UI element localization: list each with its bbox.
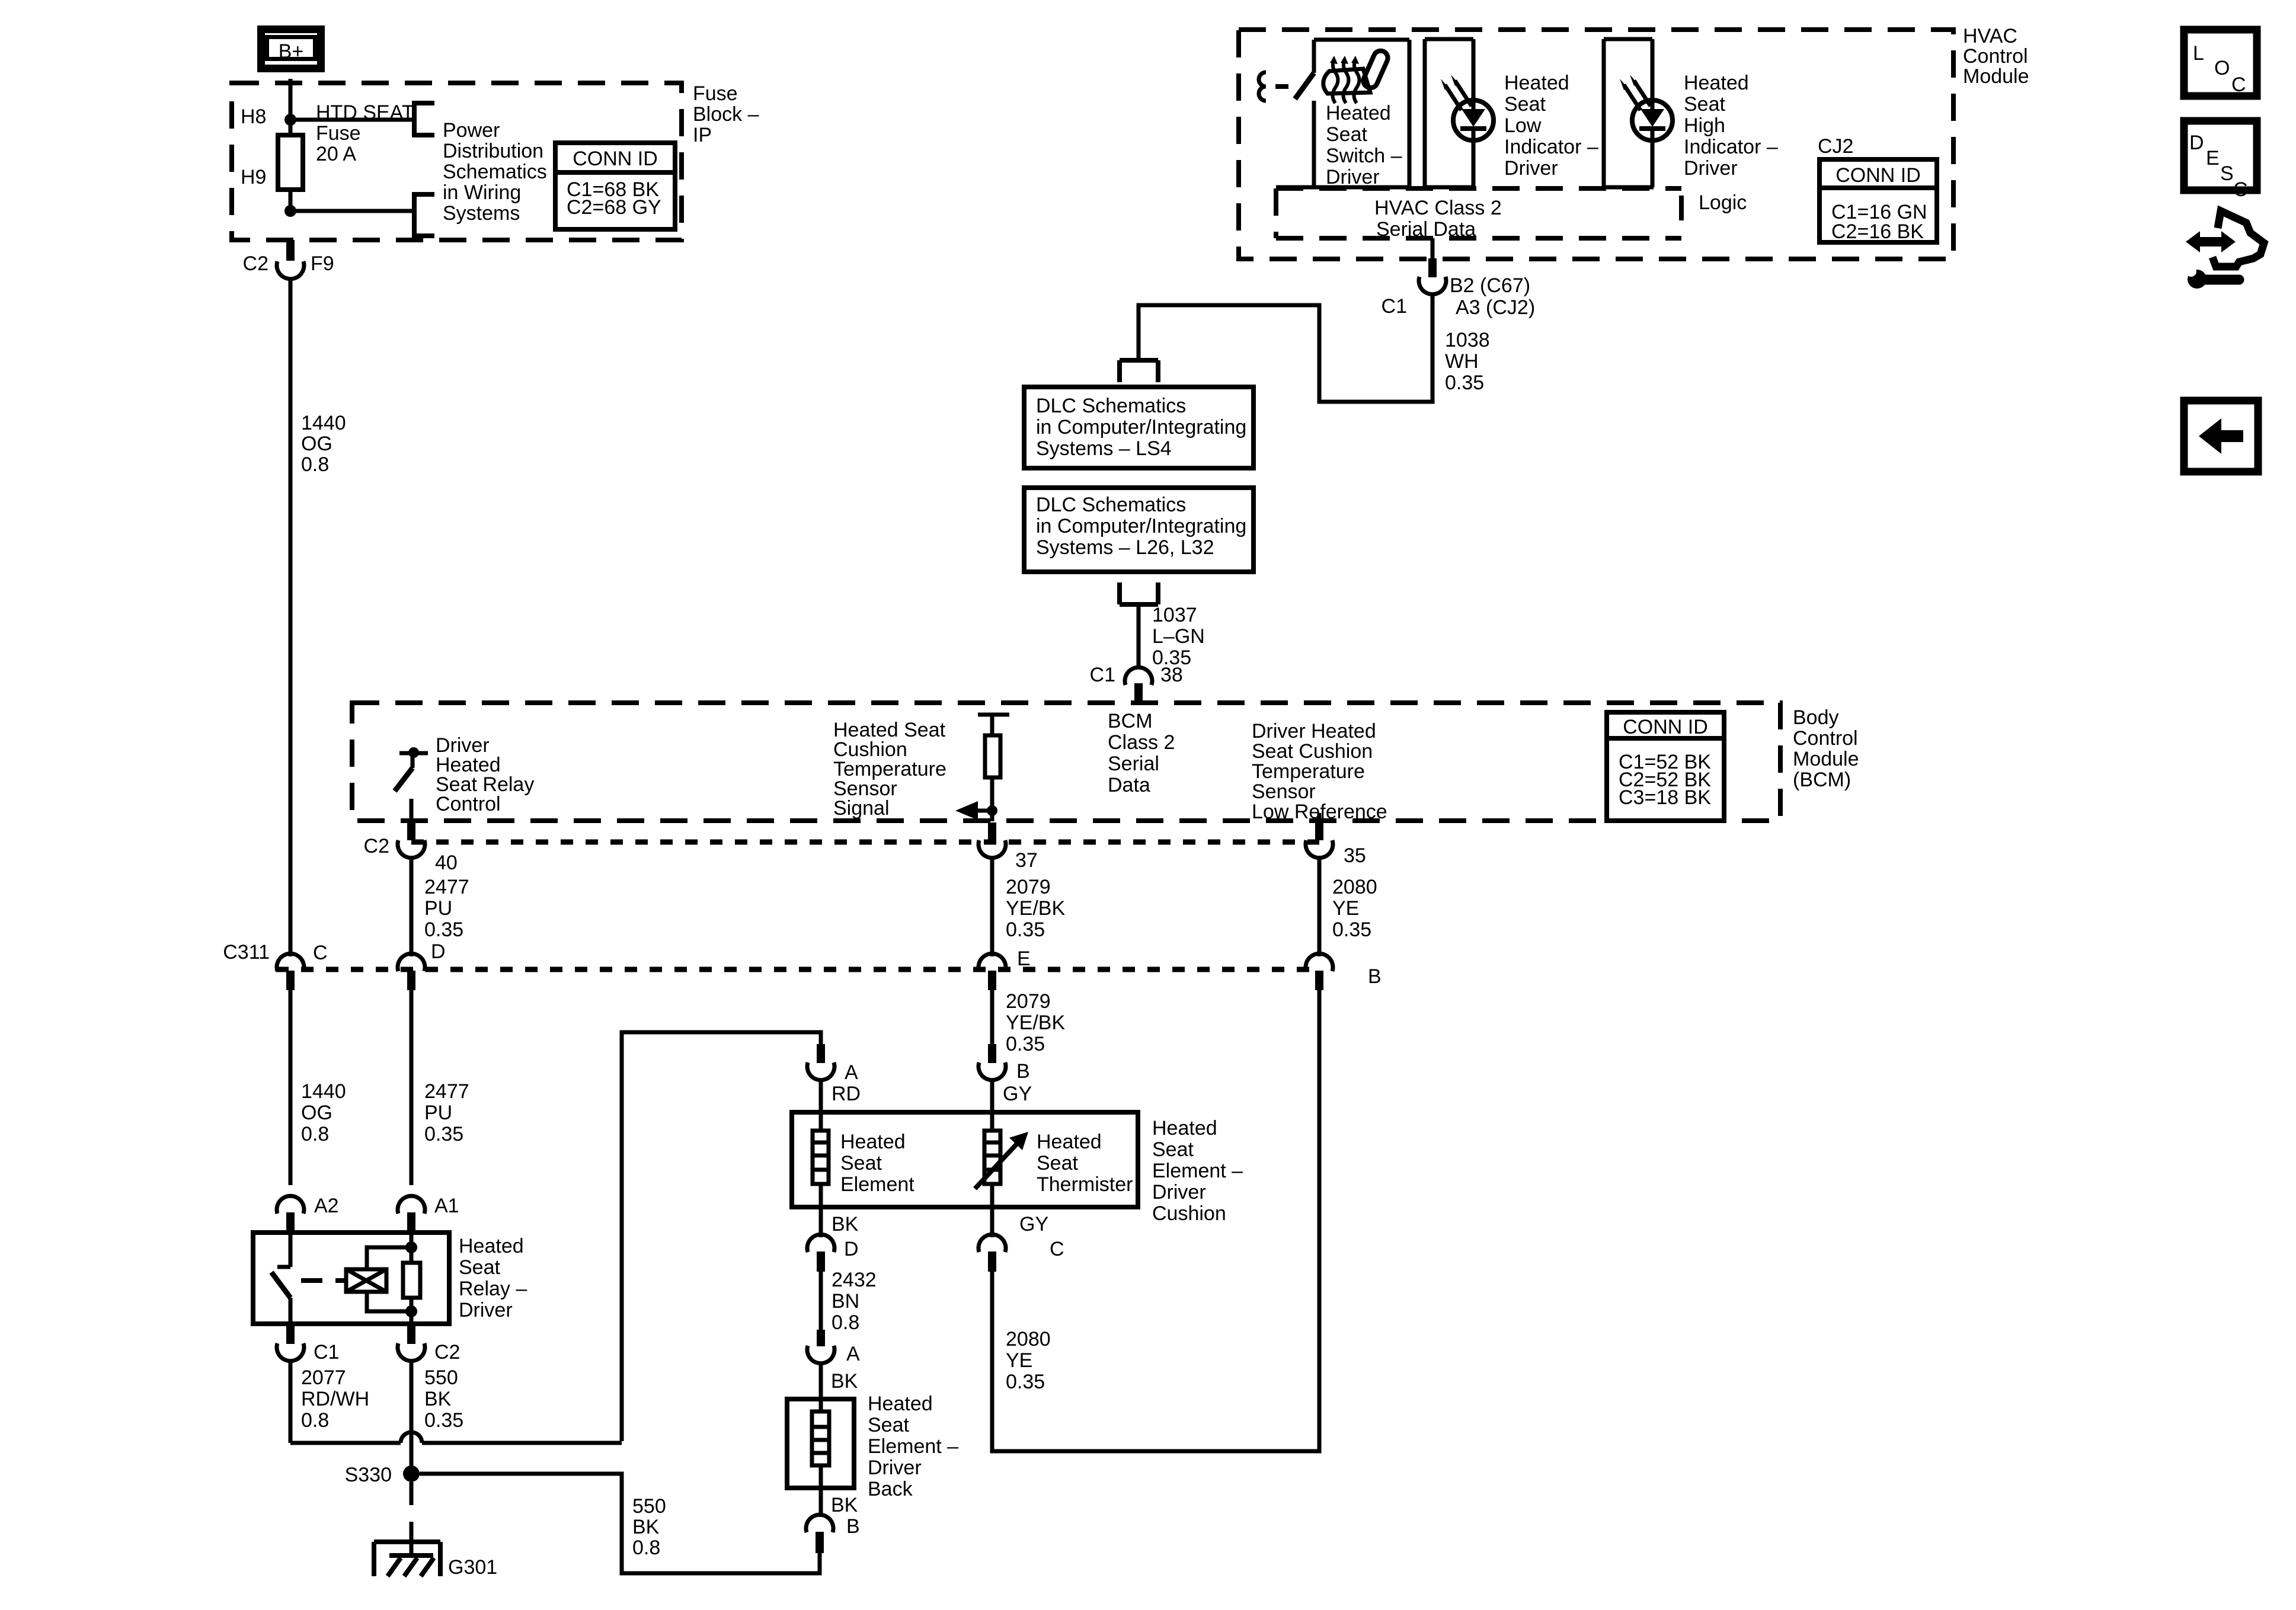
svg-text:Seat: Seat <box>1684 93 1725 116</box>
svg-text:Systems: Systems <box>443 202 520 225</box>
inner dashed box HVAC Class 2 Serial Data <box>1276 188 1681 238</box>
svg-text:Data: Data <box>1108 774 1150 796</box>
wire to off-page top <box>290 118 412 122</box>
wire fuse box to F9 <box>286 240 295 261</box>
svg-text:OG: OG <box>301 1102 332 1124</box>
svg-text:C2: C2 <box>243 252 268 275</box>
wires into element box <box>819 1079 823 1131</box>
svg-text:C2: C2 <box>364 835 389 857</box>
LED indicator low (diode) <box>1453 100 1494 140</box>
svg-text:A3 (CJ2): A3 (CJ2) <box>1456 296 1535 319</box>
svg-text:Heated: Heated <box>1684 72 1749 94</box>
svg-text:Element –: Element – <box>868 1435 958 1458</box>
connector C1 B2 (C67) / A3 (CJ2) <box>1419 277 1446 295</box>
svg-text:Serial Data: Serial Data <box>1376 218 1476 241</box>
svg-text:Driver: Driver <box>1504 157 1558 180</box>
svg-text:Module: Module <box>1793 748 1859 770</box>
svg-text:C: C <box>1050 1238 1064 1260</box>
svg-text:B: B <box>1016 1060 1030 1083</box>
power symbol B+ <box>261 30 321 69</box>
fuse HTD SEAT 20A <box>278 135 303 190</box>
Heated Seat Element - Driver Cushion box <box>792 1112 1138 1207</box>
HVAC Control Module dashed box <box>1239 30 1953 259</box>
svg-text:O: O <box>2214 57 2230 79</box>
svg-text:C2=68 GY: C2=68 GY <box>567 196 661 219</box>
svg-text:0.35: 0.35 <box>424 1123 463 1145</box>
svg-text:BK: BK <box>832 1213 859 1235</box>
svg-text:1440: 1440 <box>301 412 346 434</box>
connector row C311 dotted line <box>276 967 1319 972</box>
Body Control Module dashed box <box>352 703 1780 821</box>
svg-text:E: E <box>2206 147 2220 169</box>
off-page connector to Power Distribution (top) <box>414 101 434 137</box>
svg-text:Low: Low <box>1504 114 1542 137</box>
connector 37 (BCM) <box>988 822 996 840</box>
svg-text:Control: Control <box>1963 45 2028 68</box>
svg-text:Logic: Logic <box>1699 191 1747 214</box>
svg-text:WH: WH <box>1445 350 1479 373</box>
svg-text:2077: 2077 <box>301 1366 346 1389</box>
svg-text:YE: YE <box>1332 897 1359 920</box>
svg-text:YE/BK: YE/BK <box>1006 897 1065 920</box>
wire 2077 RD/WH <box>289 1360 293 1443</box>
svg-text:(BCM): (BCM) <box>1793 769 1851 791</box>
svg-text:A: A <box>845 1061 858 1084</box>
fuse block dashed box (Fuse Block - IP) <box>232 83 682 240</box>
svg-text:C: C <box>313 942 328 964</box>
svg-text:0.35: 0.35 <box>1006 1371 1045 1393</box>
svg-text:A2: A2 <box>314 1195 339 1217</box>
svg-text:in Wiring: in Wiring <box>443 181 521 204</box>
svg-text:Element: Element <box>840 1173 914 1196</box>
wire 2079 YE/BK (E to B conn) <box>990 990 994 1044</box>
CONN ID table (fuse block) <box>555 143 675 229</box>
svg-text:L–GN: L–GN <box>1152 625 1205 648</box>
svg-text:2477: 2477 <box>424 1080 469 1103</box>
svg-text:DLC Schematics: DLC Schematics <box>1036 494 1186 516</box>
svg-text:CJ2: CJ2 <box>1818 135 1853 158</box>
svg-text:0.35: 0.35 <box>1445 372 1484 394</box>
wire serial data out of HVAC <box>1431 238 1435 258</box>
svg-text:Indicator –: Indicator – <box>1504 136 1598 158</box>
svg-text:HTD SEAT: HTD SEAT <box>316 101 414 124</box>
wire 2080 YE (35 to B) <box>1318 857 1322 956</box>
svg-text:Schematics: Schematics <box>443 161 547 183</box>
svg-text:Heated: Heated <box>1504 72 1569 94</box>
svg-text:C: C <box>2233 178 2248 201</box>
svg-text:HVAC Class 2: HVAC Class 2 <box>1374 197 1502 219</box>
wire 2079 YE/BK (37 to E) <box>990 857 994 956</box>
svg-text:550: 550 <box>424 1366 458 1389</box>
svg-text:High: High <box>1684 114 1725 137</box>
svg-text:Driver: Driver <box>1326 166 1380 188</box>
wire 1440 OG (C to A2) <box>289 990 293 1185</box>
svg-text:C1: C1 <box>314 1341 339 1363</box>
heated seat switch box <box>1276 40 1409 187</box>
svg-text:D: D <box>2189 132 2204 154</box>
svg-text:CONN ID: CONN ID <box>1835 164 1921 187</box>
svg-text:YE/BK: YE/BK <box>1006 1012 1065 1034</box>
svg-text:Driver: Driver <box>459 1299 513 1321</box>
svg-text:550: 550 <box>632 1495 666 1518</box>
svg-text:C2=16 BK: C2=16 BK <box>1831 220 1924 243</box>
svg-text:0.35: 0.35 <box>1332 918 1371 941</box>
svg-text:0.35: 0.35 <box>1006 918 1045 941</box>
Heated Seat Relay - Driver box <box>253 1233 449 1324</box>
connector C1 (relay) <box>277 1326 304 1361</box>
DLC Schematics box 1 <box>1024 387 1253 468</box>
svg-text:S330: S330 <box>345 1464 392 1486</box>
svg-text:1038: 1038 <box>1445 329 1490 351</box>
heated seat thermister resistor <box>984 1131 1000 1184</box>
svg-text:BK: BK <box>632 1516 660 1538</box>
svg-text:37: 37 <box>1015 849 1038 872</box>
relay coil loop <box>367 1247 411 1311</box>
svg-text:Seat: Seat <box>1326 123 1367 146</box>
svg-text:Systems – LS4: Systems – LS4 <box>1036 437 1172 460</box>
svg-text:40: 40 <box>435 852 458 874</box>
svg-text:B+: B+ <box>279 40 304 63</box>
icon DESC box <box>2184 121 2257 201</box>
svg-text:Relay –: Relay – <box>459 1278 527 1300</box>
svg-text:Seat: Seat <box>1152 1138 1194 1161</box>
svg-text:Seat Cushion: Seat Cushion <box>1252 740 1373 763</box>
svg-text:C1: C1 <box>1090 664 1115 686</box>
svg-text:Fuse: Fuse <box>316 122 361 145</box>
wire out of back element box <box>819 1465 823 1488</box>
wire 550 BK (relay C2 to S330) <box>410 1360 414 1466</box>
node junction bottom of fuse <box>284 205 296 217</box>
BCM internal: signal arrow <box>955 801 992 820</box>
svg-text:Seat: Seat <box>840 1152 882 1174</box>
connector C2 (relay) <box>398 1326 425 1361</box>
svg-text:B: B <box>846 1515 860 1538</box>
svg-text:D: D <box>844 1238 859 1260</box>
svg-text:2079: 2079 <box>1006 876 1051 898</box>
switch wire to box bottom <box>1312 101 1316 187</box>
svg-text:Seat: Seat <box>1504 93 1546 116</box>
svg-text:Back: Back <box>868 1478 913 1500</box>
heated seat element resistor <box>813 1131 829 1184</box>
svg-text:Heated: Heated <box>840 1131 906 1153</box>
LED1 light arrows <box>1441 75 1472 110</box>
LED indicator high (diode) <box>1632 100 1673 140</box>
connector C2 F9 <box>277 261 304 279</box>
svg-text:2080: 2080 <box>1006 1328 1051 1350</box>
svg-text:35: 35 <box>1344 844 1366 867</box>
connector A2 (relay) <box>277 1196 304 1231</box>
svg-text:Heated: Heated <box>459 1235 524 1257</box>
svg-text:L: L <box>2193 42 2204 65</box>
svg-text:Element –: Element – <box>1152 1160 1243 1182</box>
wires out of element box <box>819 1184 823 1207</box>
svg-text:0.35: 0.35 <box>424 918 463 941</box>
connector A1 (relay) <box>398 1196 425 1231</box>
heated seat icon: cushion <box>1323 69 1370 94</box>
connector D (element) <box>807 1234 834 1272</box>
svg-text:BK: BK <box>424 1388 452 1410</box>
svg-text:C3=18 BK: C3=18 BK <box>1619 786 1711 809</box>
svg-text:0.35: 0.35 <box>424 1409 463 1432</box>
svg-text:B2 (C67): B2 (C67) <box>1450 274 1530 297</box>
svg-text:Module: Module <box>1963 65 2029 88</box>
svg-text:H8: H8 <box>241 105 266 128</box>
svg-text:Indicator –: Indicator – <box>1684 136 1778 158</box>
wire 2477 PU (C2 to D) <box>410 857 414 956</box>
wire fuse top feed <box>289 120 293 135</box>
off-page connector out of DLC box 2 <box>1120 582 1158 604</box>
svg-text:Distribution: Distribution <box>443 140 543 162</box>
svg-text:Class 2: Class 2 <box>1108 731 1175 754</box>
heated seat icon: backrest <box>1361 49 1390 90</box>
svg-text:0.8: 0.8 <box>632 1537 660 1559</box>
svg-text:Driver: Driver <box>1152 1181 1206 1204</box>
svg-text:38: 38 <box>1160 664 1183 686</box>
svg-text:GY: GY <box>1019 1213 1048 1235</box>
svg-text:HVAC: HVAC <box>1963 25 2017 47</box>
BCM internal: cushion temp sensor resistor <box>978 715 1009 821</box>
svg-text:Systems – L26, L32: Systems – L26, L32 <box>1036 536 1214 559</box>
svg-text:F9: F9 <box>311 252 334 275</box>
wire 1038 WH <box>1139 293 1432 402</box>
icon wrench <box>2186 266 2239 289</box>
svg-text:GY: GY <box>1003 1083 1032 1105</box>
off-page connector to Power Distribution (bottom) <box>414 192 434 238</box>
svg-text:Seat: Seat <box>459 1256 500 1279</box>
wire 1037 L-GN <box>1137 604 1141 668</box>
svg-text:IP: IP <box>693 124 712 146</box>
svg-text:B: B <box>1368 965 1382 988</box>
connector B (back element) <box>806 1515 833 1553</box>
svg-text:CONN ID: CONN ID <box>1623 716 1708 738</box>
relay linkage dashes <box>301 1278 322 1283</box>
wire S330 to ground <box>410 1482 414 1505</box>
svg-text:DLC Schematics: DLC Schematics <box>1036 395 1186 417</box>
svg-text:PU: PU <box>424 897 452 920</box>
svg-text:Driver: Driver <box>868 1457 922 1479</box>
svg-text:1037: 1037 <box>1152 604 1197 626</box>
wire to off-page bottom <box>290 209 412 213</box>
wire B+ to fuse block <box>289 79 293 120</box>
off-page connector into DLC box 1 <box>1120 360 1158 382</box>
CONN ID table (HVAC CJ2) <box>1819 159 1937 243</box>
wire S330 to back element <box>420 1474 820 1573</box>
svg-text:Power: Power <box>443 119 500 142</box>
svg-text:Driver Heated: Driver Heated <box>1252 720 1376 742</box>
svg-text:1440: 1440 <box>301 1080 346 1103</box>
svg-text:0.8: 0.8 <box>832 1311 859 1334</box>
LED loop 2 wire <box>1604 39 1654 187</box>
connector B (element GY) <box>988 1044 996 1063</box>
svg-text:Switch –: Switch – <box>1326 145 1402 167</box>
connector D (C311) <box>398 953 425 990</box>
svg-text:C1: C1 <box>1382 295 1407 318</box>
svg-text:0.35: 0.35 <box>1006 1033 1045 1055</box>
svg-text:Seat: Seat <box>868 1414 909 1436</box>
svg-text:0.8: 0.8 <box>301 1409 329 1432</box>
dash link <box>1275 84 1288 89</box>
LED loop 1 wire <box>1425 39 1475 187</box>
connector A (back element) <box>807 1330 834 1363</box>
connector C1 38 (BCM top) <box>1125 667 1152 685</box>
connector C (C311) <box>277 953 304 990</box>
svg-text:CONN ID: CONN ID <box>573 148 658 170</box>
ground G301 <box>374 1542 440 1576</box>
svg-text:RD: RD <box>832 1083 861 1105</box>
wire 1440 OG left rail <box>289 277 293 956</box>
BCM internal: low ref wire <box>1318 813 1322 821</box>
node junction top of fuse <box>284 114 296 126</box>
LED2 light arrows <box>1620 75 1651 110</box>
wire C1 run with hop <box>290 1441 622 1445</box>
icon LOC box <box>2184 30 2257 96</box>
svg-text:Heated: Heated <box>1152 1117 1217 1140</box>
connector 35 (BCM) <box>1315 822 1323 840</box>
Heated Seat Element - Driver Back box <box>787 1399 854 1488</box>
svg-text:D: D <box>431 940 446 963</box>
svg-text:2432: 2432 <box>832 1269 877 1291</box>
svg-text:20 A: 20 A <box>316 143 356 165</box>
wire 2477 PU (D to A1) <box>410 990 414 1185</box>
svg-text:2079: 2079 <box>1006 990 1051 1013</box>
relay coil (crossed box) <box>346 1269 386 1292</box>
wire into back element box <box>819 1362 823 1411</box>
switch lever <box>1295 73 1314 99</box>
connector row C2/37/35 dotted line <box>411 840 1319 845</box>
svg-text:PU: PU <box>424 1102 452 1124</box>
svg-text:2080: 2080 <box>1332 876 1377 898</box>
svg-text:Seat: Seat <box>1037 1152 1078 1174</box>
icon back arrow box <box>2184 401 2258 472</box>
splice S330 <box>403 1465 420 1482</box>
svg-text:Control: Control <box>1793 727 1858 750</box>
svg-text:Block –: Block – <box>693 103 759 126</box>
svg-text:Driver: Driver <box>1684 157 1738 180</box>
svg-text:C2: C2 <box>434 1341 460 1363</box>
wire 2080 YE (thermister C to B row) <box>992 990 1319 1451</box>
icon vehicle data link <box>2186 211 2264 267</box>
svg-text:BK: BK <box>831 1370 858 1393</box>
svg-text:BN: BN <box>832 1290 859 1313</box>
svg-text:RD/WH: RD/WH <box>301 1388 369 1410</box>
thermister arrow <box>975 1132 1028 1189</box>
svg-text:Temperature: Temperature <box>1252 760 1365 783</box>
connector E (C311) <box>978 953 1006 990</box>
svg-text:Signal: Signal <box>833 797 890 820</box>
svg-text:Serial: Serial <box>1108 753 1159 775</box>
svg-text:2477: 2477 <box>424 876 469 898</box>
svg-text:Thermister: Thermister <box>1037 1173 1133 1196</box>
svg-text:A: A <box>846 1343 860 1365</box>
relay switch contact <box>271 1235 290 1323</box>
relay resistor branch <box>403 1235 420 1323</box>
svg-text:0.8: 0.8 <box>301 453 329 476</box>
svg-text:Sensor: Sensor <box>1252 780 1316 803</box>
wire hop over 550 BK <box>401 1432 422 1443</box>
svg-text:Heated: Heated <box>868 1393 933 1415</box>
back element resistor <box>812 1411 829 1465</box>
DLC Schematics box 2 <box>1024 488 1253 572</box>
svg-text:S: S <box>2220 162 2234 185</box>
svg-text:OG: OG <box>301 433 332 455</box>
svg-text:C: C <box>2231 73 2246 96</box>
svg-text:Heated: Heated <box>1326 102 1391 124</box>
wire fuse bottom <box>289 190 293 211</box>
svg-text:E: E <box>1017 948 1031 970</box>
svg-text:G301: G301 <box>448 1556 497 1579</box>
BCM internal: relay control driver switch <box>395 747 428 821</box>
heated seat icon: heat waves <box>1333 60 1338 103</box>
svg-text:Heated: Heated <box>1037 1131 1102 1153</box>
svg-text:H9: H9 <box>241 166 266 188</box>
inline connector (switch feed) <box>1259 72 1266 101</box>
svg-text:in Computer/Integrating: in Computer/Integrating <box>1036 416 1246 438</box>
svg-text:Body: Body <box>1793 706 1839 729</box>
svg-text:in Computer/Integrating: in Computer/Integrating <box>1036 515 1246 537</box>
connector A (element RD) <box>817 1044 825 1063</box>
connector B (C311) <box>1306 953 1333 990</box>
svg-text:Control: Control <box>436 793 501 815</box>
svg-text:Fuse: Fuse <box>693 82 738 105</box>
svg-text:C311: C311 <box>223 941 270 964</box>
svg-text:A1: A1 <box>434 1195 459 1217</box>
svg-text:Cushion: Cushion <box>1152 1202 1226 1225</box>
svg-text:BK: BK <box>831 1494 858 1516</box>
svg-text:BCM: BCM <box>1108 710 1153 732</box>
svg-text:YE: YE <box>1006 1349 1032 1372</box>
wire 2432 BN (D to A) <box>819 1272 823 1330</box>
connector C (element) <box>978 1234 1006 1272</box>
svg-text:0.8: 0.8 <box>301 1123 329 1145</box>
connector C2 (BCM) <box>407 822 415 840</box>
wire jog to element A <box>622 1032 821 1441</box>
CONN ID table (BCM) <box>1607 712 1724 821</box>
